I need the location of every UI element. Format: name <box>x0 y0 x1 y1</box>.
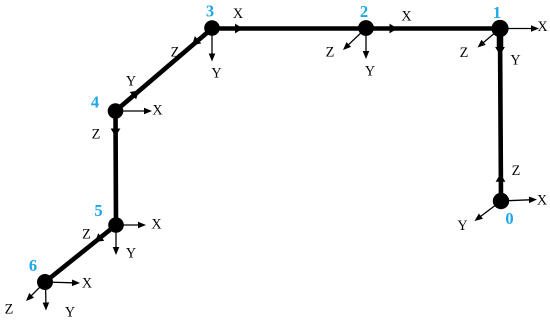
frame 2 Y-axis arrow <box>365 28 367 52</box>
frame 1 X-axis arrow <box>500 28 532 30</box>
svg-text:Y: Y <box>126 246 136 262</box>
wire link 4-5 (vertical left link) <box>113 111 118 225</box>
wire link 3-4 (diagonal link) <box>116 29 213 112</box>
svg-text:Z: Z <box>171 45 180 61</box>
frame 3 X-axis arrowhead (right on link) <box>235 24 243 34</box>
svg-text:Y: Y <box>211 66 221 82</box>
frame 0 Z-axis arrowhead (up link) <box>496 174 506 182</box>
joint node 0 (frame origin dot) <box>493 193 509 209</box>
svg-text:X: X <box>537 193 547 209</box>
svg-text:Z: Z <box>326 45 335 61</box>
svg-text:Y: Y <box>510 53 520 69</box>
svg-text:Z: Z <box>512 163 521 179</box>
wire link 5-6 (lower diagonal link) <box>45 225 116 282</box>
frame 6 Y-axis arrow <box>45 282 47 303</box>
frame 0 X-axis arrow <box>501 200 530 201</box>
wire link 3-2-1 (horizontal top link) <box>212 26 500 31</box>
frame 5 X-axis arrow <box>116 224 139 226</box>
svg-text:X: X <box>537 19 547 35</box>
svg-text:4: 4 <box>91 93 99 112</box>
svg-text:5: 5 <box>94 201 102 220</box>
svg-text:0: 0 <box>505 209 513 228</box>
frame 1 Y-axis arrowhead (down link) <box>497 30 504 49</box>
svg-text:Y: Y <box>365 64 375 80</box>
frame 3 Y-axis arrow <box>211 28 213 54</box>
frame 4 Z-axis arrowhead (down on link) <box>111 129 121 137</box>
svg-text:X: X <box>151 217 161 233</box>
svg-text:3: 3 <box>206 2 214 21</box>
frame 5 Y-axis arrow <box>115 225 117 248</box>
svg-text:Z: Z <box>460 45 469 61</box>
wire link 1-0 (vertical right link) <box>500 29 501 202</box>
frame 1 Z-axis arrow <box>483 29 500 43</box>
svg-text:Y: Y <box>126 74 136 90</box>
joint node 4 (frame origin dot) <box>108 103 124 119</box>
svg-text:Z: Z <box>82 227 91 243</box>
svg-text:1: 1 <box>493 3 501 22</box>
svg-text:X: X <box>82 276 92 292</box>
frame 3 Z-axis arrowhead (down-left on link) <box>192 36 201 45</box>
svg-text:Y: Y <box>457 218 467 234</box>
svg-text:X: X <box>233 6 243 22</box>
frame 4 Y-axis arrowhead (up-right on link) <box>130 91 139 100</box>
frame 4 X-axis arrow <box>116 110 145 112</box>
svg-text:6: 6 <box>29 256 37 275</box>
frame 0 Y-axis arrow <box>481 201 502 217</box>
frame 5 Z-axis arrowhead (down-left on link) <box>95 233 104 242</box>
svg-text:Z: Z <box>5 302 14 318</box>
svg-text:X: X <box>152 103 162 119</box>
joint node 3 (frame origin dot) <box>204 20 220 36</box>
svg-text:X: X <box>401 9 411 25</box>
svg-text:2: 2 <box>360 2 368 21</box>
frame 6 X-axis arrow <box>45 281 73 284</box>
svg-text:Z: Z <box>92 127 101 143</box>
svg-text:Y: Y <box>65 305 75 321</box>
joint node 2 (frame origin dot) <box>358 20 374 36</box>
frame 2 X-axis arrowhead (right on link) <box>390 24 398 34</box>
frame 2 Z-axis arrow <box>348 28 366 45</box>
joint node 1 (frame origin dot) <box>491 20 508 37</box>
frame 6 Z-axis arrow <box>31 282 45 296</box>
joint node 6 (frame origin dot) <box>37 274 53 290</box>
joint node 5 (frame origin dot) <box>108 217 124 233</box>
